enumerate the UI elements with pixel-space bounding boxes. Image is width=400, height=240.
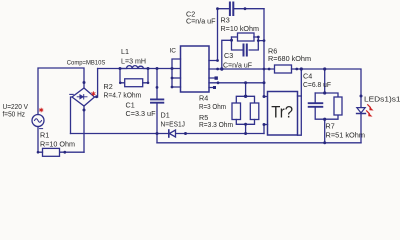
diode D1 N=ES1J	[169, 130, 176, 137]
svg-text:L1: L1	[121, 47, 129, 56]
svg-text:C3: C3	[224, 51, 233, 60]
junction L1 right node	[147, 67, 150, 70]
wire lower return rail	[157, 142, 361, 144]
IC right pin 3 pad	[215, 76, 218, 79]
junction C4/R7 top node	[323, 91, 326, 94]
wire R2 left lead from node at x=120	[120, 69, 125, 83]
junction pin 4 wire at R4/R5 drop	[244, 81, 247, 84]
red asterisk at bridge plus output	[91, 91, 95, 96]
wire drop from R4/R5 bottom bus to negative rail	[245, 124, 247, 133]
wire R1 row left segment up to AC source bottom	[38, 127, 43, 153]
junction R1 left terminal	[37, 151, 40, 154]
LED emission arrow 2	[366, 110, 372, 116]
junction R3 right jog node	[257, 39, 260, 42]
IC right pins 3,5 stubs	[209, 78, 216, 88]
wire drop from pin4 wire to R4/R5 top bus	[245, 83, 247, 97]
svg-text:R7: R7	[326, 122, 335, 131]
svg-text:Comp=MB10S: Comp=MB10S	[67, 60, 106, 67]
junction bridge top node	[83, 81, 86, 84]
capacitor C4 plates	[309, 103, 323, 107]
wire R1 row right segment	[60, 151, 85, 153]
wire R4/R5 bottom bus and stubs	[236, 120, 254, 125]
junction IC right pin 1 terminal	[216, 59, 219, 62]
junction bridge bottom node	[83, 109, 86, 112]
wire bridge left (-) lead down to negative rail	[71, 97, 73, 134]
svg-text:L=3 mH: L=3 mH	[121, 56, 146, 65]
junction pin 4 wire end at right vertical	[263, 81, 266, 84]
wire C1 branch lower down to return rail	[156, 104, 158, 143]
junction IC left bus pin 4	[171, 86, 174, 89]
svg-text:C=6.8 uF: C=6.8 uF	[303, 80, 332, 89]
wire C4 lower stem and bottom bus	[315, 108, 338, 120]
junction C1 top node	[156, 67, 159, 70]
wire C4/R7 top bus	[315, 93, 338, 97]
IC right pin 2 wire to R6	[209, 68, 275, 70]
svg-text:R=10 Ohm: R=10 Ohm	[40, 140, 75, 149]
LED D2 triangle	[357, 108, 365, 113]
junction R3 jog at right vertical	[263, 39, 266, 42]
svg-text:R=3.3 Ohm: R=3.3 Ohm	[199, 120, 233, 129]
resistor R3 body	[238, 33, 255, 41]
svg-text:N=ES1J: N=ES1J	[161, 119, 186, 128]
svg-text:LEDs1)s1: LEDs1)s1	[364, 94, 400, 103]
wire bridge right (+) lead up to top rail	[95, 69, 98, 98]
resistor R1 body	[43, 148, 60, 156]
junction negative rail at C1 drop	[156, 132, 159, 135]
wire drop from C4/R7 bottom node to lower rail	[324, 119, 326, 143]
junction IC right pin 4 terminal	[217, 81, 220, 84]
AC source minus mark	[40, 128, 43, 130]
resistor R2 body (parallel with L1)	[125, 79, 143, 87]
IC left pins 1,2,4 bus	[172, 59, 181, 87]
junction R3/C3 left loop node	[230, 39, 233, 42]
svg-text:R=3 Ohm: R=3 Ohm	[199, 102, 226, 111]
junction negative rail at R4/R5 drop	[244, 132, 247, 135]
junction C1 lead terminal	[156, 86, 159, 89]
IC right pin 5 pad	[213, 86, 216, 89]
svg-text:R=680 kOhm: R=680 kOhm	[268, 54, 311, 63]
wire C4 upper stem	[314, 93, 316, 102]
capacitor C2 plates	[230, 3, 233, 16]
svg-text:R1: R1	[40, 131, 49, 140]
junction R1 right terminal	[63, 151, 66, 154]
svg-text:IC: IC	[170, 48, 177, 55]
resistor R6 body	[275, 65, 292, 73]
junction R6 right terminal	[295, 68, 298, 71]
capacitor C3 plates	[244, 45, 247, 56]
svg-text:f=50 Hz: f=50 Hz	[3, 110, 26, 119]
resistor R4 body	[232, 103, 241, 120]
junction L1 left node	[119, 67, 122, 70]
transformer Tr? body	[268, 92, 298, 136]
wire C1 branch upper	[156, 69, 158, 99]
wire negative rail with D1	[71, 133, 265, 135]
wire Tr left pin 2 from negative rail	[264, 125, 268, 134]
junction pin 2 wire at right vertical	[263, 68, 266, 71]
junction R3 right terminal	[257, 36, 260, 39]
svg-text:Tr?: Tr?	[271, 103, 293, 121]
junction D1 right terminal	[184, 132, 187, 135]
IC right pin 1 wire up to C2	[209, 9, 218, 61]
inductor L1 coil	[120, 66, 148, 69]
wire Tr right pin 1 stub	[298, 95, 302, 97]
svg-text:R=10 kOhm: R=10 kOhm	[221, 24, 260, 33]
LED emission arrow 1	[367, 104, 373, 110]
wire rail from R6 to top right corner down to LED	[292, 69, 362, 108]
wire R3/C3 parallel loop verticals and C3 run	[232, 37, 259, 50]
junction lower rail at C4/R7 drop	[323, 141, 326, 144]
junction C2 wire node	[244, 7, 247, 10]
junction LED anode terminal	[360, 95, 363, 98]
junction R4/R5 top bus center	[244, 95, 247, 98]
junction rail at C4/R7 drop	[323, 67, 326, 70]
op-amp controller IC body	[181, 46, 210, 92]
junction IC right pin 2 terminal	[216, 68, 219, 71]
junction node A pin2 wire to R3C3	[220, 67, 223, 70]
bridge minus polarity mark	[70, 93, 73, 95]
wire R4/R5 top bus and stubs	[236, 96, 254, 103]
IC left pin 3 stub	[172, 77, 181, 79]
junction C4/R7 bottom node	[323, 118, 326, 121]
wire R2 right lead up to top rail	[143, 69, 148, 83]
wire R3 left lead	[232, 36, 238, 38]
rectifier bridge Comp=MB10S diamond outline	[72, 88, 95, 106]
wire right vertical from C2 down to Tr pin 1	[264, 9, 268, 97]
wire top rail from bridge to IC pin	[98, 68, 181, 70]
junction Tr left pin 2 terminal	[263, 123, 266, 126]
wire from AC source top to bridge top input	[38, 68, 84, 115]
capacitor C1 plates	[151, 99, 163, 102]
resistor R7 body	[334, 97, 342, 115]
svg-text:C=n/a uF: C=n/a uF	[223, 61, 253, 70]
wire drop from rail to C4/R7 top node	[324, 69, 326, 93]
wire from IC pin 2 node up to R3/C3 left loop	[222, 40, 232, 69]
junction C2 wire left corner	[216, 7, 219, 10]
AC source V1 circle with sine	[32, 115, 44, 127]
LED D2 cathode bar	[357, 113, 366, 115]
svg-text:R=4.7 kOhm: R=4.7 kOhm	[104, 91, 142, 100]
junction R2 left terminal	[119, 82, 122, 85]
junction Tr left pin 1 terminal	[263, 95, 266, 98]
red asterisk at AC source	[39, 108, 43, 113]
wire bridge top lead	[83, 83, 85, 88]
junction top rail at IC left bus	[171, 67, 174, 70]
bridge inner diode glyph	[77, 95, 87, 99]
resistor R5 body	[250, 103, 258, 120]
junction bridge right terminal	[95, 95, 98, 98]
svg-text:R=51 kOhm: R=51 kOhm	[326, 131, 366, 140]
svg-text:C=3.3 uF: C=3.3 uF	[126, 109, 157, 118]
junction R2 right terminal	[147, 82, 150, 85]
svg-text:D1: D1	[161, 111, 170, 120]
wire R3 right lead and jog to right vertical	[254, 37, 264, 41]
svg-text:C=n/a uF: C=n/a uF	[186, 17, 216, 26]
junction rail at secondary drop	[300, 67, 303, 70]
wire C2 top run	[218, 8, 265, 10]
junction R6 left terminal	[268, 68, 271, 71]
junction R4/R5 bottom bus center	[244, 123, 247, 126]
IC right pin 4 wire	[209, 82, 264, 84]
junction IC left bus pin 3	[171, 77, 174, 80]
wire LED branch vertical	[360, 108, 362, 143]
wire bridge bottom lead down to R1 return row	[83, 106, 85, 152]
wire secondary vertical x=301 from rail to Tr pin 2 right	[298, 69, 302, 135]
